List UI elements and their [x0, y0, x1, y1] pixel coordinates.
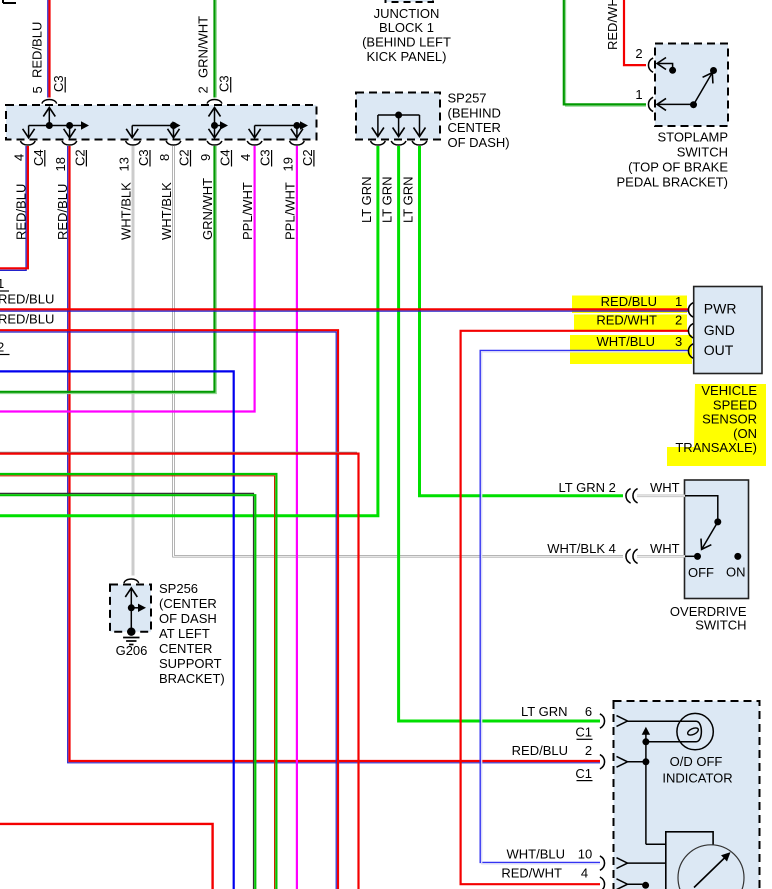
- svg-text:SWITCH: SWITCH: [677, 145, 728, 160]
- splice SP256 dashed box: [110, 585, 151, 632]
- svg-text:RED/WHT: RED/WHT: [501, 866, 562, 881]
- svg-text:WHT/BLK: WHT/BLK: [119, 182, 134, 240]
- svg-text:RED/BLU: RED/BLU: [55, 184, 70, 240]
- indicator pin 4 connector: [600, 877, 605, 889]
- svg-text:SENSOR: SENSOR: [702, 412, 757, 427]
- svg-text:KICK PANEL): KICK PANEL): [367, 49, 447, 64]
- svg-text:WHT/BLU: WHT/BLU: [597, 334, 656, 349]
- SP257 pin connector: [412, 141, 427, 145]
- SP256 top connector: [124, 579, 139, 583]
- svg-text:C2: C2: [300, 149, 315, 166]
- J1 group 2 distribution: [132, 125, 178, 127]
- svg-text:RED/BLU: RED/BLU: [13, 184, 28, 240]
- svg-text:(BEHIND LEFT: (BEHIND LEFT: [362, 35, 451, 50]
- indicator lamp: [677, 713, 713, 749]
- svg-text:(BEHIND: (BEHIND: [448, 105, 501, 120]
- highlight over WHT/BLU 3 label: [570, 335, 692, 364]
- J1 group 4 distribution: [255, 125, 306, 127]
- svg-text:C4: C4: [218, 149, 233, 166]
- svg-text:LT GRN: LT GRN: [401, 177, 416, 223]
- junction block 1 dashed box: [6, 105, 317, 140]
- wire LT GRN 1 from SP257 to left edge: [0, 146, 378, 516]
- J1 pin 5 connector: [42, 99, 57, 103]
- svg-text:(CENTER: (CENTER: [159, 596, 217, 611]
- wire LT GRN 2 from SP257 to O/D off indicator pin 6: [399, 146, 600, 721]
- svg-text:C1: C1: [575, 766, 592, 781]
- svg-text:RED/BLU: RED/BLU: [0, 292, 54, 307]
- svg-text:WHT/BLK: WHT/BLK: [547, 541, 605, 556]
- svg-text:C1: C1: [575, 725, 592, 740]
- svg-text:WHT: WHT: [650, 541, 680, 556]
- highlight over VEHICLE SPEED SENSOR label: [667, 384, 766, 466]
- svg-text:RED/BLU: RED/BLU: [30, 22, 45, 78]
- J1 bottom pin connector: [290, 141, 305, 145]
- svg-text:LT GRN: LT GRN: [521, 704, 567, 719]
- svg-text:WHT/BLU: WHT/BLU: [507, 847, 566, 862]
- svg-text:LT GRN: LT GRN: [359, 177, 374, 223]
- svg-text:2: 2: [675, 313, 682, 328]
- svg-text:6: 6: [585, 704, 592, 719]
- J1 bottom pin connector: [21, 141, 36, 145]
- svg-text:4: 4: [609, 541, 616, 556]
- svg-text:2: 2: [609, 480, 616, 495]
- highlight over RED/WHT 2 label: [574, 315, 687, 331]
- stoplamp pin 1 connector: [648, 97, 653, 111]
- speed sensor pin 3 connector: [688, 344, 693, 358]
- svg-text:C4: C4: [31, 149, 46, 166]
- SP257 splice internals: [378, 114, 420, 116]
- svg-text:INDICATOR: INDICATOR: [662, 771, 732, 786]
- partial dashed box at top left corner: [3, 0, 16, 3]
- svg-text:SWITCH: SWITCH: [695, 618, 746, 633]
- indicator pin 6 connector: [600, 714, 605, 728]
- wire RED/WHT speed sensor GND pin 2 to indicator pin 4: [461, 331, 688, 884]
- svg-text:OF DASH: OF DASH: [159, 611, 217, 626]
- svg-text:C2: C2: [72, 149, 87, 166]
- wire RED/WHT into stoplamp switch pin 2: [624, 0, 646, 65]
- svg-text:VEHICLE: VEHICLE: [701, 383, 757, 398]
- svg-text:2: 2: [635, 46, 642, 61]
- svg-text:AT LEFT: AT LEFT: [159, 626, 210, 641]
- wire GRN/BLK from left edge down at x255 to bottom: [0, 493, 254, 889]
- wire RED/BLU from left edge down at x338 to bottom: [0, 330, 338, 889]
- O/D off indicator internals: [617, 716, 628, 727]
- overdrive switch box: [685, 480, 749, 599]
- svg-text:(ON: (ON: [733, 426, 757, 441]
- wire LT GRN 3 from SP257 to overdrive switch connector: [420, 146, 624, 496]
- svg-text:2: 2: [0, 340, 4, 355]
- wire GRN/WHT into stoplamp switch pin 1: [566, 0, 646, 106]
- svg-text:SPEED: SPEED: [713, 397, 757, 412]
- svg-text:C2: C2: [177, 149, 192, 166]
- vehicle speed sensor box: [694, 287, 762, 374]
- svg-text:C3: C3: [136, 149, 151, 166]
- indicator pin 10 connector: [600, 856, 605, 870]
- svg-text:PPL/WHT: PPL/WHT: [240, 182, 255, 240]
- svg-text:GRN/WHT: GRN/WHT: [196, 16, 211, 78]
- svg-text:C3: C3: [51, 75, 66, 92]
- svg-text:4: 4: [581, 866, 588, 881]
- svg-text:RED/WHT: RED/WHT: [605, 0, 620, 50]
- svg-text:1: 1: [635, 87, 642, 102]
- svg-text:RED/WHT: RED/WHT: [596, 313, 657, 328]
- svg-text:SUPPORT: SUPPORT: [159, 656, 222, 671]
- speed sensor pin 1 connector: [688, 303, 693, 317]
- SP257 pin connector: [391, 141, 406, 145]
- svg-text:PEDAL BRACKET): PEDAL BRACKET): [617, 175, 729, 190]
- splice SP257 dashed box: [356, 93, 440, 140]
- svg-text:C3: C3: [217, 75, 232, 92]
- svg-text:4: 4: [11, 154, 26, 161]
- J1 group 3 distribution: [214, 108, 216, 138]
- svg-text:9: 9: [198, 154, 213, 161]
- svg-text:2: 2: [585, 743, 592, 758]
- svg-text:GND: GND: [704, 322, 735, 338]
- svg-text:RED/BLU: RED/BLU: [0, 312, 54, 327]
- svg-text:TRANSAXLE): TRANSAXLE): [675, 440, 757, 455]
- svg-text:CENTER: CENTER: [448, 120, 501, 135]
- ground G206: [127, 628, 135, 636]
- svg-text:RED/BLU: RED/BLU: [512, 743, 568, 758]
- svg-text:19: 19: [280, 157, 295, 171]
- svg-text:2: 2: [196, 86, 211, 93]
- svg-text:CENTER: CENTER: [159, 641, 212, 656]
- indicator internal junction: [645, 734, 647, 742]
- svg-text:3: 3: [675, 334, 682, 349]
- J1 bottom pin connector: [247, 141, 262, 145]
- wire RED/BLU into J1 pin 5: [47, 0, 49, 98]
- wire RED from left edge down at x212.6 to bottom: [0, 824, 213, 889]
- svg-text:8: 8: [157, 154, 172, 161]
- svg-text:SP256: SP256: [159, 581, 198, 596]
- svg-text:LT GRN: LT GRN: [559, 480, 605, 495]
- speed sensor pin 2 connector: [688, 324, 693, 338]
- O/D off indicator dashed box: [614, 701, 760, 889]
- svg-text:PPL/WHT: PPL/WHT: [282, 182, 297, 240]
- svg-text:BLOCK 1: BLOCK 1: [379, 20, 434, 35]
- svg-text:4: 4: [238, 154, 253, 161]
- svg-text:JUNCTION: JUNCTION: [374, 6, 440, 21]
- svg-text:STOPLAMP: STOPLAMP: [657, 130, 728, 145]
- svg-text:WHT: WHT: [650, 480, 680, 495]
- J1 bottom pin connector: [207, 141, 222, 145]
- highlight over RED/BLU 1 label: [572, 296, 687, 314]
- J1 bottom pin connector: [62, 141, 77, 145]
- svg-text:5: 5: [30, 86, 45, 93]
- svg-text:10: 10: [578, 847, 592, 862]
- SP256 splice internals: [130, 588, 132, 632]
- wire WHT from connector to overdrive switch pin 2: [637, 494, 685, 497]
- wire WHT/BLU speed sensor OUT pin 3 to indicator pin 10: [480, 350, 688, 862]
- indicator pin 2 connector: [600, 755, 605, 769]
- svg-text:18: 18: [53, 157, 68, 171]
- svg-text:G206: G206: [116, 643, 148, 658]
- wire PPL/WHT from J1 pin 4 C3 to left edge: [0, 146, 255, 412]
- J1 pin 2 connector: [207, 99, 222, 103]
- wire GRN/RED from left edge down at x276 to bottom: [0, 476, 275, 889]
- junction block J1 partial box at top: [386, 0, 434, 2]
- wire RED/BLU from left edge to speed sensor PWR pin 1: [0, 308, 688, 310]
- J1 group 1 distribution: [48, 108, 50, 126]
- svg-text:GRN/WHT: GRN/WHT: [200, 178, 215, 240]
- svg-text:LT GRN: LT GRN: [380, 177, 395, 223]
- overdrive switch inline connector pin 4: [626, 549, 631, 563]
- svg-text:O/D OFF: O/D OFF: [670, 754, 723, 769]
- indicator gauge: [666, 832, 713, 889]
- wire PPL/WHT from J1 pin 19 to bottom edge: [296, 146, 298, 889]
- SP257 pin connector: [371, 141, 386, 145]
- svg-text:(TOP OF BRAKE: (TOP OF BRAKE: [628, 160, 728, 175]
- wire WHT from connector to overdrive switch pin 4: [637, 555, 685, 558]
- svg-text:13: 13: [117, 157, 132, 171]
- wire BLU from left edge down at x233.7 to bottom: [0, 371, 234, 889]
- wire GRN/WHT into J1 pin 2: [215, 0, 217, 98]
- svg-text:SP257: SP257: [448, 91, 487, 106]
- wire GRN/WHT from J1 pin 9 to left edge: [0, 146, 216, 394]
- svg-text:BRACKET): BRACKET): [159, 671, 225, 686]
- svg-text:C3: C3: [258, 149, 273, 166]
- stoplamp switch internals: [657, 64, 673, 68]
- stoplamp pin 2 connector: [648, 58, 653, 72]
- svg-text:RED/BLU: RED/BLU: [601, 294, 657, 309]
- svg-text:OFF: OFF: [688, 565, 714, 580]
- J1 bottom pin connector: [166, 141, 181, 145]
- svg-text:OUT: OUT: [704, 342, 734, 358]
- wire RED/BLU from J1 pin 18 to O/D off indicator pin 2: [68, 146, 600, 763]
- overdrive switch inline connector pin 2: [626, 489, 631, 503]
- svg-text:PWR: PWR: [704, 301, 737, 317]
- svg-text:OF DASH): OF DASH): [448, 135, 510, 150]
- wire WHT/BLK from J1 pin 8 to overdrive switch connector: [174, 146, 624, 556]
- J1 bottom pin connector: [126, 141, 141, 145]
- overdrive switch internals: [685, 496, 718, 522]
- wire RED/BLU from J1 pin 4 to left edge: [0, 146, 26, 270]
- stoplamp switch box: [655, 44, 728, 127]
- svg-text:WHT/BLK: WHT/BLK: [159, 182, 174, 240]
- svg-text:1: 1: [675, 294, 682, 309]
- svg-text:ON: ON: [726, 564, 746, 579]
- svg-text:1: 1: [0, 276, 4, 291]
- wire WHT/BLK from J1 pin 13 to SP256: [132, 146, 135, 576]
- wire RED from left edge down at x358.5 to bottom: [0, 451, 357, 453]
